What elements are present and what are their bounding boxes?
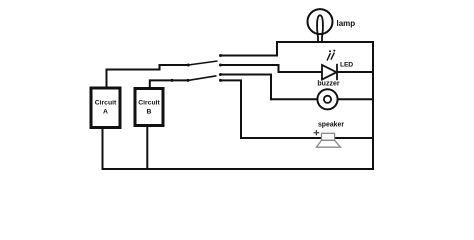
wire: S2 contact 2 to speaker branch [221,80,242,138]
wire: S2 contact 1 to buzzer branch [221,75,272,100]
wire: S1 contact 1 to lamp branch [221,42,278,56]
wire: Circuit B top lead to switch S2 pole [150,80,188,87]
wire: Circuit A bottom lead [102,129,104,170]
svg-text:Circuit: Circuit [138,100,160,107]
svg-text:lamp: lamp [337,19,356,28]
lamp [308,9,333,42]
wire: speaker branch [241,137,373,139]
svg-text:buzzer: buzzer [317,81,339,88]
circuit block A [91,88,120,128]
circuit block B [135,89,163,126]
speaker [314,130,341,147]
buzzer [317,89,337,109]
wire: buzzer branch [271,98,373,100]
LED D1 [322,50,337,81]
switch S1 (upper changeover switch) [187,54,222,67]
svg-text:B: B [147,109,152,116]
svg-text:A: A [103,109,108,116]
wire: Circuit B bottom lead [146,127,148,170]
wire: LED branch [279,71,374,73]
wire: lamp branch top [277,41,373,43]
switch S2 (lower changeover switch) [171,73,223,82]
svg-text:Circuit: Circuit [95,100,117,107]
wire: Circuit A top lead to switch S1 pole [107,65,188,87]
svg-text:LED: LED [340,62,353,69]
svg-text:speaker: speaker [318,122,344,129]
wire: right bus [372,42,374,169]
wire: S1 contact 2 to LED branch [221,65,279,72]
wire: bottom bus [103,168,374,170]
